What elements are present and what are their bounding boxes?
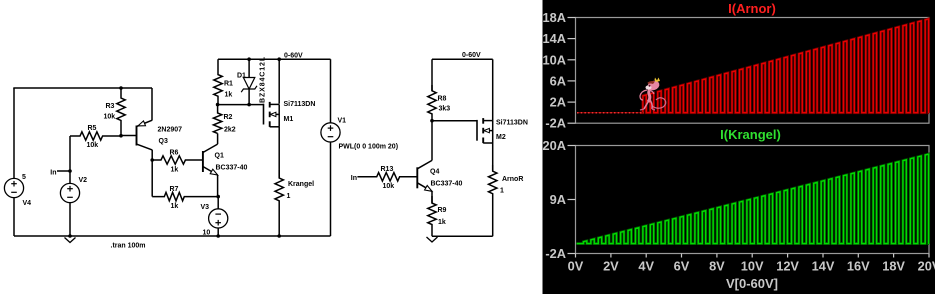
svg-text:BC337-40: BC337-40 — [216, 165, 248, 172]
wire — [217, 228, 219, 236]
node top-left junction — [119, 86, 123, 90]
top plot frame — [576, 18, 930, 124]
svg-text:14V: 14V — [812, 259, 835, 274]
wire — [151, 88, 153, 120]
label R3 value 10k — [104, 114, 116, 121]
svg-text:Krangel: Krangel — [288, 181, 314, 188]
resistor Krangel — [275, 170, 283, 236]
wire — [13, 88, 15, 178]
node D1 top junction — [247, 57, 251, 61]
svg-text:-2A: -2A — [545, 246, 566, 261]
svg-text:In: In — [351, 175, 357, 182]
svg-text:Si7113DN: Si7113DN — [496, 120, 528, 127]
node R1/R2 junction — [216, 103, 220, 107]
svg-text:0-60V: 0-60V — [462, 52, 481, 59]
svg-text:D1: D1 — [237, 73, 246, 80]
svg-text:Q3: Q3 — [159, 138, 168, 145]
svg-text:M1: M1 — [284, 116, 294, 123]
resistor R13 — [357, 173, 417, 181]
svg-text:V2: V2 — [79, 177, 88, 184]
resistor R7 — [152, 192, 218, 200]
svg-text:10k: 10k — [87, 142, 99, 149]
svg-text:In: In — [50, 170, 56, 177]
label 2N2907 — [158, 127, 183, 134]
wire — [432, 58, 493, 60]
svg-text:R8: R8 — [438, 96, 447, 103]
svg-text:8V: 8V — [709, 259, 725, 274]
bottom plot y-axis ticks — [568, 146, 576, 254]
label R7 value 1k — [171, 203, 179, 210]
svg-text:2N2907: 2N2907 — [158, 127, 183, 134]
svg-text:4V: 4V — [638, 259, 654, 274]
label R2 — [224, 114, 233, 121]
svg-text:2V: 2V — [603, 259, 619, 274]
label R8 value 3k3 — [439, 106, 451, 113]
node In junction — [68, 169, 72, 173]
top plot y-axis ticks — [568, 18, 576, 124]
label In net (right) — [351, 175, 357, 182]
svg-text:10k: 10k — [104, 114, 116, 121]
svg-text:R3: R3 — [106, 103, 115, 110]
pink panther sprite — [640, 78, 666, 111]
svg-text:V[0-60V]: V[0-60V] — [726, 276, 778, 291]
title I(Arnor) — [728, 1, 776, 16]
svg-text:R9: R9 — [438, 207, 447, 214]
label R1 — [224, 81, 233, 88]
svg-text:20V: 20V — [918, 259, 935, 274]
resistor ArnoR — [489, 165, 497, 236]
svg-text:12V: 12V — [776, 259, 799, 274]
label PWL (V1) — [339, 144, 399, 151]
svg-text:18V: 18V — [882, 259, 905, 274]
svg-text:3k3: 3k3 — [439, 106, 451, 113]
label D1 — [237, 73, 246, 80]
svg-text:2A: 2A — [550, 95, 566, 110]
wire — [431, 121, 433, 161]
wire — [151, 160, 153, 197]
x-axis tick labels — [568, 259, 935, 274]
svg-text:10V: 10V — [741, 259, 764, 274]
svg-text:5: 5 — [22, 174, 26, 181]
svg-text:-2A: -2A — [545, 116, 566, 131]
label V3 value 10 — [203, 230, 211, 237]
wire — [330, 59, 332, 122]
label V1 — [338, 118, 347, 125]
label R5 — [88, 125, 97, 132]
node Krangel bottom junction — [277, 234, 281, 238]
label R9 value 1k — [438, 219, 446, 226]
svg-text:6V: 6V — [674, 259, 690, 274]
label R3 — [106, 103, 115, 110]
svg-text:M2: M2 — [496, 134, 506, 141]
voltage source V2 — [60, 183, 79, 202]
label V2 — [79, 177, 88, 184]
svg-text:V4: V4 — [23, 200, 32, 207]
wire — [431, 191, 433, 203]
svg-text:1k: 1k — [225, 92, 233, 99]
label Q3 — [159, 138, 168, 145]
label BC337-40 (Q1) — [216, 165, 248, 172]
label ArnoR — [502, 176, 523, 183]
svg-text:R7: R7 — [170, 186, 179, 193]
node Q3 collector junction — [150, 158, 154, 162]
wire — [492, 59, 494, 120]
x-axis ticks — [576, 254, 930, 258]
wire — [13, 87, 152, 89]
red trace I(Arnor) halo — [640, 19, 929, 113]
svg-text:16V: 16V — [847, 259, 870, 274]
label R1 value 1k — [225, 92, 233, 99]
svg-text:R1: R1 — [224, 81, 233, 88]
wire — [69, 203, 71, 236]
x-axis label V[0-60V] — [726, 276, 778, 291]
bottom plot frame — [576, 146, 930, 254]
top plot y-axis labels — [543, 10, 566, 131]
svg-text:I(Krangel): I(Krangel) — [720, 127, 781, 142]
svg-text:BZX84C12L: BZX84C12L — [260, 56, 267, 103]
green trace I(Krangel) halo — [577, 154, 930, 243]
label V4 value 5 — [22, 174, 26, 181]
resistor R9 — [428, 196, 436, 236]
voltage source V4 — [4, 178, 23, 197]
svg-text:2k2: 2k2 — [224, 127, 236, 134]
label 0-60V (left) — [284, 53, 303, 60]
transistor Q1 BC337-40 — [203, 144, 218, 175]
resistor R3 — [117, 88, 125, 136]
svg-text:1: 1 — [500, 188, 504, 195]
svg-text:20A: 20A — [543, 138, 566, 153]
wire — [69, 136, 71, 171]
svg-text:R5: R5 — [88, 125, 97, 132]
svg-text:Q1: Q1 — [215, 153, 224, 160]
mosfet M2 Si7113DN — [477, 118, 493, 143]
label R2 value 2k2 — [224, 127, 236, 134]
svg-text:V1: V1 — [338, 118, 347, 125]
wire — [492, 143, 494, 171]
wire — [218, 58, 331, 60]
node R8/M2/Q4 junction — [430, 119, 434, 123]
label In net (left) — [50, 170, 56, 177]
wire — [217, 133, 219, 144]
label V4 — [23, 200, 32, 207]
svg-text:6A: 6A — [550, 73, 566, 88]
resistor R1 — [214, 59, 222, 104]
node M1 source junction — [277, 57, 281, 61]
wire — [217, 197, 219, 209]
wire — [57, 170, 70, 172]
voltage source V3 — [209, 209, 228, 228]
wire — [278, 127, 280, 178]
label M1 — [284, 116, 294, 123]
wire — [330, 142, 332, 236]
svg-text:Q4: Q4 — [430, 169, 439, 176]
label 0-60V (right) — [462, 52, 481, 59]
svg-text:I(Arnor): I(Arnor) — [728, 1, 776, 16]
title I(Krangel) — [720, 127, 781, 142]
red dotted baseline — [577, 112, 644, 114]
wire — [151, 150, 153, 160]
label R13 value 10k — [383, 183, 395, 190]
svg-text:1k: 1k — [438, 219, 446, 226]
node D1 bottom junction — [247, 103, 251, 107]
label R5 value 10k — [87, 142, 99, 149]
svg-text:9A: 9A — [550, 192, 566, 207]
wire — [217, 175, 219, 197]
transistor Q3 2N2907 — [137, 120, 153, 150]
svg-text:10: 10 — [203, 230, 211, 237]
svg-text:10k: 10k — [383, 183, 395, 190]
label R7 — [170, 186, 179, 193]
green trace I(Krangel) — [577, 154, 930, 243]
label R9 — [438, 207, 447, 214]
label Q4 — [430, 169, 439, 176]
label BC337-40 (Q4) — [431, 181, 463, 188]
label ArnoR value 1 — [500, 188, 504, 195]
wire — [432, 120, 477, 122]
wire — [432, 235, 493, 237]
wire — [13, 198, 15, 236]
label Krangel value 1 — [287, 193, 291, 200]
resistor R8 — [428, 85, 436, 121]
svg-text:18A: 18A — [543, 10, 566, 25]
label R13 — [381, 166, 394, 173]
svg-text:R13: R13 — [381, 166, 394, 173]
transistor Q4 BC337-40 — [417, 160, 432, 191]
label R8 — [438, 96, 447, 103]
resistor R5 — [70, 132, 121, 140]
node V3 bottom junction — [216, 234, 220, 238]
label Si7113DN (M2) — [496, 120, 528, 127]
label R6 value 1k — [171, 167, 179, 174]
label M2 — [496, 134, 506, 141]
node R3/R5 junction — [119, 134, 123, 138]
svg-text:.tran 100m: .tran 100m — [111, 243, 146, 250]
wire — [218, 104, 250, 106]
svg-text:1k: 1k — [171, 203, 179, 210]
label Q1 — [215, 153, 224, 160]
svg-text:1: 1 — [287, 193, 291, 200]
wire — [249, 104, 263, 106]
svg-text:Si7113DN: Si7113DN — [284, 101, 316, 108]
svg-text:PWL(0 0 100m 20): PWL(0 0 100m 20) — [339, 144, 399, 151]
wire — [69, 171, 71, 183]
resistor R6 — [152, 156, 203, 164]
node ground junction — [68, 234, 72, 238]
label BZX84C12L — [260, 56, 267, 103]
svg-text:ArnoR: ArnoR — [502, 176, 523, 183]
node R7/Q1/V3 junction — [216, 195, 220, 199]
wire — [278, 59, 280, 103]
svg-text:R6: R6 — [170, 150, 179, 157]
bottom plot y-axis labels — [543, 138, 566, 261]
ground (right) — [427, 237, 438, 242]
label V3 — [201, 204, 210, 211]
wire — [14, 235, 331, 237]
zener diode D1 BZX84C12L — [241, 59, 257, 104]
red trace I(Arnor) — [640, 19, 929, 113]
resistor R2 — [213, 105, 221, 134]
svg-text:10A: 10A — [543, 52, 566, 67]
ground — [65, 238, 76, 243]
svg-text:R2: R2 — [224, 114, 233, 121]
label Krangel — [288, 181, 314, 188]
wire — [431, 59, 433, 91]
mosfet M1 Si7113DN — [264, 102, 280, 127]
label R6 — [170, 150, 179, 157]
svg-text:1k: 1k — [171, 167, 179, 174]
svg-text:0V: 0V — [568, 259, 584, 274]
label Si7113DN (M1) — [284, 101, 316, 108]
svg-text:BC337-40: BC337-40 — [431, 181, 463, 188]
voltage source V1 — [321, 123, 340, 142]
wire — [121, 135, 137, 137]
text .tran directive — [111, 243, 146, 250]
chart background — [543, 0, 935, 294]
svg-text:V3: V3 — [201, 204, 210, 211]
svg-text:14A: 14A — [543, 31, 566, 46]
